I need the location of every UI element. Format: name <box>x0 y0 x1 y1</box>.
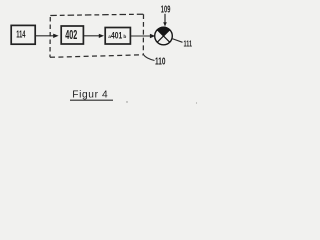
wire 114 to 402 <box>36 35 56 37</box>
leader line to label 110 <box>143 55 154 61</box>
arrowhead down at lamp top <box>163 22 167 26</box>
svg-text:114: 114 <box>16 28 25 40</box>
block 402 <box>61 26 83 44</box>
svg-text:b: b <box>123 34 126 40</box>
svg-text:109: 109 <box>161 5 171 16</box>
svg-text:402: 402 <box>65 28 77 42</box>
X diagonal 1 <box>157 30 169 42</box>
X diagonal 2 <box>157 30 169 42</box>
svg-text:Figur 4: Figur 4 <box>72 90 108 101</box>
arrowhead into lamp <box>150 34 155 38</box>
arrowhead into 402 <box>53 34 58 38</box>
dashed boundary box 110 : right edge <box>142 14 144 55</box>
label a401b <box>108 31 126 41</box>
leader line to label 111 <box>172 39 183 43</box>
dashed boundary box 110 : bottom edge <box>50 55 143 58</box>
block 114 <box>11 25 35 44</box>
paper speck <box>126 101 127 102</box>
arrowhead into 401b <box>99 34 104 38</box>
wire 402 to 401b <box>84 35 102 37</box>
dashed boundary box 110 : top edge <box>50 14 143 15</box>
block 401b <box>105 28 130 45</box>
svg-text:110: 110 <box>155 56 166 67</box>
lamp symbol 111 (circle with X, top sector filled) <box>155 27 173 45</box>
leader arrow from 109 down to lamp <box>164 14 166 23</box>
caption underline <box>70 99 113 101</box>
filled top sector of lamp <box>157 27 170 36</box>
paper speck <box>196 102 197 103</box>
wire 401b to lamp <box>131 35 153 37</box>
dashed boundary box 110 : left edge <box>49 16 51 58</box>
svg-text:401: 401 <box>111 31 122 41</box>
svg-text:111: 111 <box>184 39 193 49</box>
